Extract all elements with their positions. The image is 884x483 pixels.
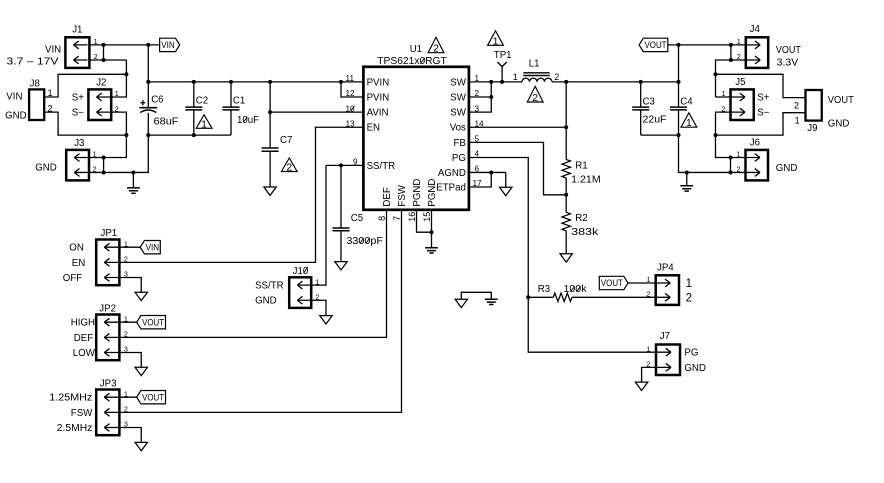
svg-text:100k: 100k [564,284,587,295]
wire riser J3.1-J3.2 [103,158,105,173]
wire JP1.1 to flag [119,246,140,248]
warning triangle 1 (C4) [681,113,697,129]
slash of 00 (3300pF) [360,238,364,244]
svg-text:68uF: 68uF [154,116,179,127]
wire J5.2 [716,112,731,135]
wire R3 left lead [528,296,553,298]
ground stem (J3) [132,172,134,187]
junction J5.2/gnd sense [714,133,718,137]
wire AGND drop [505,172,507,187]
svg-text:VOUT: VOUT [142,392,165,402]
svg-text:FSW: FSW [71,408,93,419]
wire gnd sense down to J3.1 [89,135,126,157]
net tie AGND-PGND wire [461,292,491,299]
wire PGND pin15 stub [431,210,433,232]
svg-text:LOW: LOW [73,348,96,359]
ground (PGND) earth symbol [425,248,438,253]
svg-text:GND: GND [5,110,27,121]
junction J3.2 riser [102,170,106,174]
wire JP3.1 to flag [119,396,136,398]
junction C3 top [639,80,643,84]
wire J5.1 [716,96,731,98]
resistor R1 [562,160,570,179]
svg-text:C6: C6 [151,95,163,106]
junction VIN net at C6 riser [146,43,150,47]
wire JP2.3 gnd [119,353,141,368]
svg-text:22uF: 22uF [643,114,667,125]
wire JP2.1 to flag [119,321,136,323]
wire J4.2 [716,60,746,74]
ground stem (PGND) [431,232,433,247]
svg-text:C1: C1 [233,95,245,106]
svg-text:J4: J4 [750,24,761,35]
svg-text:FSW: FSW [397,184,408,206]
svg-text:J9: J9 [807,123,817,134]
wire ETPad pin [469,172,491,187]
svg-text:1: 1 [493,35,499,47]
svg-text:J2: J2 [96,77,106,88]
svg-text:U1: U1 [410,44,422,55]
svg-text:S+: S+ [757,93,769,104]
svg-text:GND: GND [684,363,706,374]
svg-text:J8: J8 [30,78,40,89]
svg-text:FB: FB [454,138,466,149]
connector J6 [746,150,769,181]
ground (J3) earth symbol [127,188,140,193]
svg-text:SS/TR: SS/TR [255,281,284,292]
svg-text:VOUT: VOUT [601,278,624,288]
svg-text:SW: SW [450,77,466,88]
wire J1.1 to VIN flag [89,44,159,46]
svg-text:1: 1 [795,115,800,125]
wire AVIN [270,111,363,113]
ground (J6) earth symbol [680,186,693,191]
junction C2 bottom [192,133,196,137]
svg-text:JP2: JP2 [99,303,116,314]
wire sense row to J8.1 [44,74,126,97]
svg-text:2.5MHz: 2.5MHz [57,423,93,434]
svg-text:AGND: AGND [438,168,466,179]
svg-text:2: 2 [532,92,538,104]
junction C6 top [146,80,150,84]
svg-text:JP3: JP3 [100,378,117,389]
junction C6 bottom [146,133,150,137]
VOUT flag (JP2) [137,316,166,329]
wire PVIN pin12 riser [341,82,363,97]
wire FSW net [120,210,402,413]
junction J3.1 riser [102,156,106,160]
wire SW2 stub [469,96,491,98]
junction C4 riser [677,80,681,84]
junction AVIN tap [268,110,272,114]
power ground (AGND) [500,187,512,195]
power ground (R2) [560,254,572,262]
svg-text:EN: EN [72,258,85,269]
svg-text:TP1: TP1 [494,50,512,61]
junction J4 riser bottom [729,58,733,62]
junction PGND join [430,230,434,234]
svg-text:L1: L1 [529,58,540,69]
wire J8.2 to ground sense [44,112,126,135]
svg-text:2: 2 [737,52,741,61]
svg-text:R2: R2 [575,213,587,224]
svg-text:1.21M: 1.21M [571,174,601,185]
wire riser J1.1-J1.2 [103,45,105,60]
svg-text:1: 1 [646,275,650,284]
junction gnd sense [124,133,128,137]
svg-text:VOUT: VOUT [776,45,801,56]
svg-text:R3: R3 [538,284,550,295]
warning triangle 2 (U1) [428,37,444,54]
svg-text:10: 10 [346,104,356,113]
wire SW3 stub [469,82,491,112]
svg-text:C7: C7 [280,135,292,146]
polarity + (C6) [140,100,145,105]
wire R2 down [565,231,567,254]
wire JP1.3 gnd [119,278,141,293]
wire Vos [469,126,566,128]
power ground (C5) [335,262,347,270]
svg-text:7: 7 [392,216,402,221]
connector J5 [731,89,754,120]
svg-text:3.7 – 17V: 3.7 – 17V [7,57,60,68]
svg-text:Vos: Vos [450,123,466,134]
svg-text:11: 11 [346,74,355,83]
svg-text:VOUT: VOUT [645,40,668,50]
svg-text:AVIN: AVIN [367,108,389,119]
connector J1 [65,37,89,68]
connector J3 [66,150,89,181]
svg-text:1: 1 [686,117,692,129]
svg-text:GND: GND [35,163,57,174]
capacitor C5 [333,165,350,261]
wire J3.2 to C6 foot [89,135,148,172]
svg-text:VOUT: VOUT [142,317,165,327]
slash of 0 (pin 10) [351,106,355,111]
capacitor C7 [262,82,279,187]
junction C2 top [192,80,196,84]
power ground (JP2) [135,367,147,375]
slash of 0 (TPS621x0RGT) [420,58,425,64]
IC U1 body TPS621x0RGT [363,67,469,210]
resistor R2 [562,212,570,231]
svg-text:TPS621x0RGT: TPS621x0RGT [377,56,447,67]
svg-text:C2: C2 [196,95,208,106]
wire cap ground bus [148,134,231,136]
svg-text:1: 1 [513,72,518,82]
wire sense down to J5.1 [715,74,717,97]
junction J4 riser top [729,43,733,47]
wire J2.2 down [111,112,126,135]
svg-text:S−: S− [72,108,84,119]
VIN flag [160,38,180,51]
junction sense row [124,72,128,76]
svg-text:383k: 383k [571,227,598,238]
svg-text:ETPad: ETPad [436,182,466,193]
wire PGND pin16 stub [417,210,432,232]
wire J7.2 gnd [642,367,656,382]
junction J1.2 riser [102,58,106,62]
svg-text:VIN: VIN [6,92,22,103]
junction VOUT riser [677,43,681,47]
junction C5 tap [339,163,343,167]
wire SS/TR pin [326,164,363,166]
junction ground tap (J6) [685,170,689,174]
svg-text:1: 1 [737,37,741,46]
wire J6.1 [731,157,746,159]
wire PG net [469,158,656,353]
svg-text:HIGH: HIGH [71,318,95,329]
junction SW riser mid [489,95,493,99]
svg-text:1: 1 [646,344,650,353]
junction J1.1 riser [102,43,106,47]
svg-text:15: 15 [422,212,432,222]
inductor L1 [522,73,552,82]
svg-text:S+: S+ [72,93,84,104]
power ground (net tie) [455,299,467,307]
svg-text:8: 8 [377,216,387,221]
svg-text:J1: J1 [72,25,82,36]
svg-text:J10: J10 [293,266,309,277]
power ground (J10) [320,316,332,324]
connector J8 [29,89,44,120]
capacitor C4 [670,82,687,135]
svg-text:S−: S− [757,108,769,119]
wire EN net [119,127,363,262]
junction output sense [714,72,718,76]
svg-text:1: 1 [201,118,207,130]
junction C3/C4 gnd bus [677,133,681,137]
VOUT flag (JP3) [137,391,166,404]
wire SW bus [469,81,522,83]
svg-text:2: 2 [433,43,439,55]
svg-text:DEF: DEF [382,187,393,206]
warning triangle 2 (C7) [281,158,297,174]
svg-text:C4: C4 [680,96,693,107]
svg-text:12: 12 [346,89,356,98]
capacitor C6 [139,82,157,135]
svg-text:EN: EN [367,123,380,134]
wire gnd sense down to J6.1 [716,135,731,157]
resistor R3 [553,293,572,301]
wire J10.2 gnd [311,300,326,315]
svg-text:C3: C3 [643,96,655,107]
earth ground (net tie) [485,299,498,304]
svg-text:2: 2 [554,72,559,82]
svg-text:2: 2 [646,290,650,299]
junction PG/R3 tap [526,295,530,299]
junction AGND/ETPad riser [489,170,493,174]
junction C1 top [229,80,233,84]
connector J2 [88,89,111,120]
slash of 00 (100k) [571,286,575,292]
svg-text:1: 1 [93,150,97,159]
wire JP3.3 gnd [119,428,141,443]
connector JP3 [96,390,119,436]
connector JP4 [656,275,679,305]
svg-text:PG: PG [452,153,466,164]
wire R1 to R2 [565,178,567,212]
svg-text:OFF: OFF [63,273,82,284]
VOUT flag (JP4) [599,276,628,289]
connector J7 [656,345,680,376]
junction SW riser top [489,80,493,84]
junction TP1 tap [500,80,504,84]
wire SS/TR to J10 [311,165,326,285]
junction Vos tap [564,125,568,129]
wire C6 riser top [147,45,149,82]
svg-text:1: 1 [686,278,692,290]
junction ground symbol tap [131,170,135,174]
slash of 0 (10uF) [243,117,247,123]
svg-text:16: 16 [407,212,417,222]
wire DEF net [119,210,386,338]
wire AGND pin [469,171,506,173]
svg-text:VOUT: VOUT [828,95,854,106]
svg-text:PGND: PGND [427,179,438,207]
wire riser J4.1-J4.2 [730,45,732,60]
junction J6.1 riser [729,156,733,160]
svg-text:PVIN: PVIN [367,92,390,103]
wire R3 to JP4.2 [572,296,656,298]
svg-text:2: 2 [124,255,128,264]
wire flag to JP4.1 [628,282,656,284]
svg-text:PVIN: PVIN [367,77,390,88]
svg-text:PG: PG [684,348,698,359]
svg-text:10uF: 10uF [237,115,259,126]
junction R1 riser [564,80,568,84]
svg-text:SS/TR: SS/TR [367,161,396,172]
svg-text:2: 2 [124,405,128,414]
svg-text:PGND: PGND [412,179,423,207]
VOUT flag (top) [639,38,668,51]
connector JP2 [96,315,119,361]
wire R1 riser [565,82,567,160]
svg-text:SW: SW [450,92,466,103]
svg-text:J5: J5 [735,77,745,88]
svg-text:3300pF: 3300pF [346,236,383,247]
svg-text:GND: GND [776,163,798,174]
wire J1.2 right [89,59,126,61]
capacitor C2 [185,82,202,135]
svg-text:VIN: VIN [45,45,61,56]
wire C3-C4 ground link [641,134,679,136]
power ground (C7) [264,187,276,195]
wire FB net [469,142,566,194]
junction PVIN pin12 riser [339,80,343,84]
svg-text:1.25MHz: 1.25MHz [49,393,92,404]
svg-text:DEF: DEF [74,333,93,344]
junction FB tap [564,193,568,197]
junction C7/AVIN riser top [268,80,272,84]
svg-text:JP4: JP4 [657,262,674,273]
wire C4 gnd down to J6.2 [679,135,746,172]
capacitor C3 [632,82,649,135]
warning triangle 1 (C2) [196,115,212,131]
warning triangle 2 (L1) [527,86,543,104]
svg-text:J7: J7 [660,331,670,342]
svg-text:R1: R1 [575,160,587,171]
svg-text:J3: J3 [74,138,84,149]
connector J10 [289,277,311,308]
svg-text:VIN: VIN [146,242,160,252]
svg-text:2: 2 [124,330,128,339]
svg-text:2: 2 [794,100,799,110]
power ground (JP1) [135,292,147,300]
svg-text:ON: ON [69,243,84,254]
svg-text:1: 1 [315,277,319,286]
wire sense to J9.2 [716,74,806,97]
wire J2.1 up to sense row [111,74,126,97]
VIN flag (JP1) [140,241,160,254]
wire VOUT riser [678,45,680,82]
wire VOUT flag to J4 [668,44,746,46]
power ground (JP3) [135,442,147,450]
svg-text:1: 1 [48,88,53,98]
warning triangle 1 (TP1) [488,31,504,48]
wire gnd sense to J9.1 [716,113,806,135]
wire J1.2 down to sense row [125,60,127,74]
junction J6.2 riser [729,170,733,174]
test point TP1 [497,62,506,82]
ground stem (J6) [686,172,688,185]
wire VOUT bus [552,81,679,83]
connector J9 [806,90,822,121]
svg-text:3.3V: 3.3V [777,58,799,69]
power ground (J7) [635,382,647,390]
svg-text:JP1: JP1 [101,228,118,239]
svg-text:GND: GND [255,296,277,307]
capacitor C1 [223,82,240,135]
svg-text:VIN: VIN [161,40,175,50]
svg-text:2: 2 [286,162,292,174]
svg-text:SW: SW [450,108,466,119]
svg-text:2: 2 [686,292,692,304]
slash of 0 (J10) [304,267,308,273]
svg-text:J6: J6 [750,138,760,149]
connector J4 [746,37,768,68]
wire riser J6.1-J6.2 [730,158,732,173]
svg-text:GND: GND [828,118,850,129]
svg-text:C5: C5 [351,213,363,224]
node VIN bus [148,81,363,83]
connector JP1 [96,240,119,286]
